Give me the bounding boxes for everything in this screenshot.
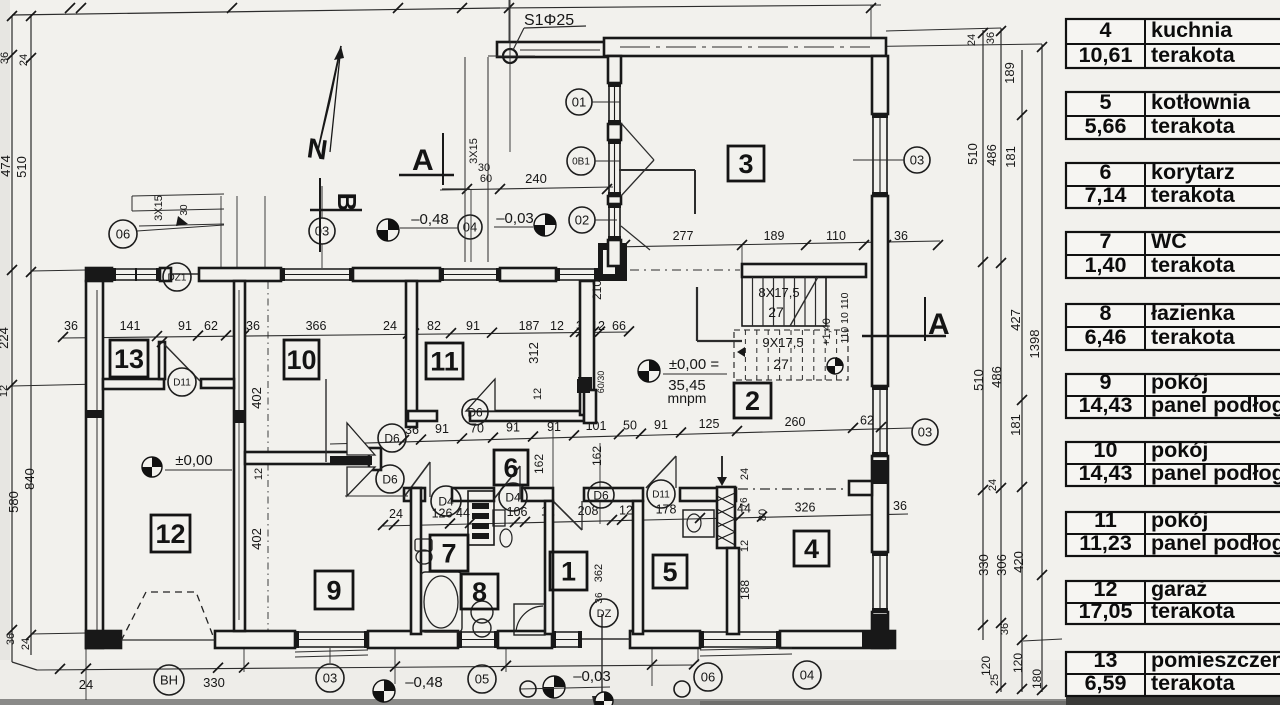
svg-text:D6: D6 <box>467 405 483 419</box>
porch west wall <box>608 56 621 83</box>
chimney wall room5/4 <box>717 487 735 548</box>
svg-text:5: 5 <box>662 557 677 587</box>
svg-text:24: 24 <box>20 638 32 650</box>
door D11 leaf room13 <box>164 344 200 381</box>
svg-text:+1,40: +1,40 <box>821 318 833 346</box>
svg-text:580: 580 <box>6 491 21 513</box>
benchmark -0.48 upper <box>377 219 399 241</box>
svg-text:60: 60 <box>480 173 492 185</box>
chimney flue room11 <box>577 379 590 393</box>
svg-text:402: 402 <box>249 387 264 409</box>
svg-text:6,46: 6,46 <box>1085 325 1127 349</box>
svg-text:12: 12 <box>550 319 564 333</box>
svg-text:±0,00: ±0,00 <box>175 452 212 469</box>
svg-text:terakota: terakota <box>1151 114 1236 138</box>
terrace edge lines <box>464 57 466 262</box>
svg-text:210: 210 <box>590 280 604 300</box>
svg-text:36: 36 <box>0 52 11 64</box>
stairs upper flight <box>742 277 826 326</box>
svg-text:840: 840 <box>22 468 37 490</box>
benchmark +-0.00 room12 <box>142 457 162 477</box>
label circle 03 <box>316 664 344 692</box>
leader 06 to steps <box>137 225 224 231</box>
svg-text:D11: D11 <box>652 490 670 501</box>
right exterior wall <box>872 56 888 114</box>
corridor north wall (room11 south) y411-421 <box>408 411 437 421</box>
svg-text:24: 24 <box>987 479 999 491</box>
benchmark -0.03 upper <box>534 214 556 236</box>
svg-text:03: 03 <box>910 153 924 168</box>
svg-text:łazienka: łazienka <box>1151 301 1236 325</box>
svg-text:terakota: terakota <box>1151 253 1236 277</box>
label circle D6 <box>378 424 406 452</box>
label circle 04 <box>458 215 482 239</box>
wc toilet <box>415 539 432 551</box>
corridor west double door D6 swings <box>347 423 375 455</box>
svg-text:02: 02 <box>575 213 589 228</box>
dim chain corridor <box>330 428 912 444</box>
bottom scan edge band <box>0 699 1280 705</box>
svg-text:–0,48: –0,48 <box>405 674 443 691</box>
room box 9 <box>315 571 353 609</box>
svg-text:125: 125 <box>699 417 720 431</box>
svg-text:03: 03 <box>323 671 337 686</box>
svg-text:A: A <box>412 144 434 177</box>
svg-text:10,61: 10,61 <box>1079 43 1133 67</box>
label circle 06 <box>109 220 137 248</box>
room1 west wall <box>545 501 553 634</box>
label circle D4 <box>499 483 527 511</box>
label circle 06 <box>694 663 722 691</box>
svg-text:9X17,5: 9X17,5 <box>762 335 803 350</box>
svg-text:14,43: 14,43 <box>1079 461 1133 485</box>
svg-text:12: 12 <box>155 519 185 549</box>
svg-text:224: 224 <box>0 327 11 349</box>
svg-text:181: 181 <box>1008 414 1023 436</box>
room box 7 <box>430 535 468 571</box>
room3 balcony door swings <box>621 123 654 160</box>
svg-text:91: 91 <box>435 422 449 436</box>
svg-text:306: 306 <box>994 554 1009 576</box>
svg-text:110 10 110: 110 10 110 <box>839 292 851 343</box>
leader lines for window labels <box>592 101 620 103</box>
svg-text:326: 326 <box>795 500 816 514</box>
label circle 03 <box>309 218 335 244</box>
svg-text:7,14: 7,14 <box>1085 183 1127 207</box>
wall rooms10/11 (vertical x406-417) <box>406 281 417 427</box>
svg-text:13: 13 <box>114 344 144 374</box>
svg-text:362: 362 <box>593 564 605 582</box>
svg-text:1,40: 1,40 <box>1085 253 1127 277</box>
svg-text:1398: 1398 <box>1027 330 1042 359</box>
svg-text:4: 4 <box>804 534 819 564</box>
svg-text:402: 402 <box>249 528 264 550</box>
svg-text:120: 120 <box>979 656 993 676</box>
shower corner <box>514 604 545 635</box>
dim chain lower rooms <box>383 514 908 526</box>
svg-text:91: 91 <box>466 319 480 333</box>
north arrow <box>318 46 341 150</box>
svg-text:mnpm: mnpm <box>668 390 707 406</box>
room box 6 <box>494 450 528 485</box>
stair hall top wall <box>742 264 866 277</box>
room box 4 <box>794 531 829 566</box>
room box 5 <box>653 555 687 588</box>
svg-text:1: 1 <box>561 557 576 587</box>
room box 10 <box>284 340 319 379</box>
label circle 04 <box>793 661 821 689</box>
svg-text:kuchnia: kuchnia <box>1151 18 1233 42</box>
svg-text:427: 427 <box>1008 309 1023 331</box>
label circle 01 <box>566 89 592 115</box>
svg-text:korytarz: korytarz <box>1151 160 1235 184</box>
svg-text:pokój: pokój <box>1151 508 1208 532</box>
svg-text:36: 36 <box>64 319 78 333</box>
svg-text:36: 36 <box>999 623 1011 635</box>
svg-text:60/30: 60/30 <box>596 371 606 394</box>
top wall left section <box>86 268 112 281</box>
svg-text:36: 36 <box>894 229 908 243</box>
section marker B <box>319 178 321 252</box>
svg-text:24: 24 <box>739 468 751 480</box>
svg-text:91: 91 <box>506 421 520 435</box>
svg-text:pokój: pokój <box>1151 370 1208 394</box>
svg-text:240: 240 <box>525 171 547 186</box>
svg-text:06: 06 <box>701 670 715 685</box>
svg-text:181: 181 <box>1003 146 1018 168</box>
svg-text:06: 06 <box>116 227 130 242</box>
top-left wall corner block x598-627 <box>598 243 627 281</box>
svg-text:126: 126 <box>432 506 453 520</box>
svg-text:–0,03: –0,03 <box>496 210 534 227</box>
label circle D11 <box>168 368 196 396</box>
svg-text:D4: D4 <box>505 490 521 504</box>
svg-text:36: 36 <box>594 592 605 604</box>
section marker A left <box>399 174 454 176</box>
small steps top-left <box>132 194 224 196</box>
washing machine <box>471 601 493 623</box>
svg-text:24: 24 <box>389 507 403 521</box>
svg-text:12: 12 <box>1094 577 1118 601</box>
extension lines to left dims <box>31 270 86 271</box>
room4 north T-wall piece <box>849 481 872 495</box>
svg-text:–0,48: –0,48 <box>411 211 449 228</box>
svg-text:486: 486 <box>989 366 1004 388</box>
wc/bath block west wall x411-421 <box>411 488 421 634</box>
svg-text:474: 474 <box>0 155 13 177</box>
svg-text:D6: D6 <box>382 472 398 486</box>
svg-text:±0,00 =: ±0,00 = <box>669 356 720 373</box>
room1 east wall <box>633 501 643 634</box>
top wall right section <box>604 38 886 56</box>
corridor south wall segments y488-501 <box>404 488 425 501</box>
svg-text:6: 6 <box>1100 160 1112 184</box>
svg-text:14,43: 14,43 <box>1079 393 1133 417</box>
svg-text:6,59: 6,59 <box>1085 671 1127 695</box>
svg-text:8: 8 <box>472 577 487 607</box>
svg-text:9: 9 <box>326 576 341 606</box>
svg-text:10: 10 <box>1094 438 1118 462</box>
svg-text:DZ: DZ <box>597 608 612 620</box>
svg-text:03: 03 <box>918 425 932 440</box>
label circle D4 <box>431 486 461 516</box>
room box 12 <box>151 515 190 552</box>
svg-text:312: 312 <box>526 342 541 364</box>
svg-text:11,23: 11,23 <box>1079 531 1132 555</box>
terrace steps bottom <box>295 650 368 652</box>
svg-text:120: 120 <box>1011 653 1025 673</box>
label circle D11 <box>647 480 675 508</box>
room box 8 <box>461 574 498 609</box>
garage door swing (dashed) <box>121 592 215 641</box>
svg-text:D6: D6 <box>384 431 400 445</box>
svg-text:62: 62 <box>860 414 874 428</box>
room11 door D6 swing <box>466 379 495 411</box>
svg-text:27: 27 <box>768 304 784 320</box>
svg-text:162: 162 <box>532 454 546 474</box>
svg-text:330: 330 <box>203 675 225 690</box>
svg-text:pomieszczenie g: pomieszczenie g <box>1151 648 1280 672</box>
top wall middle section <box>497 42 610 57</box>
svg-text:N: N <box>305 132 329 166</box>
room box 2 <box>734 383 771 418</box>
svg-text:pokój: pokój <box>1151 438 1208 462</box>
column S1 o25 <box>503 49 517 63</box>
svg-text:terakota: terakota <box>1151 43 1236 67</box>
label circle DZ1 <box>163 263 191 291</box>
svg-text:260: 260 <box>785 415 806 429</box>
label circle BH <box>154 665 184 695</box>
svg-text:106: 106 <box>507 505 528 519</box>
benchmark bottom DZ line <box>595 692 613 705</box>
svg-text:36: 36 <box>246 319 260 333</box>
junction block wall1 <box>233 410 246 423</box>
svg-text:366: 366 <box>306 319 327 333</box>
left+top dimension lines <box>11 16 13 662</box>
svg-text:486: 486 <box>984 144 999 166</box>
room13 south wall + D11 jamb <box>103 379 164 389</box>
left exterior wall <box>86 281 103 648</box>
dim chain rooms 13-10-11 <box>63 332 629 338</box>
svg-text:178: 178 <box>656 503 677 517</box>
stairs lower flight (dashed) <box>734 330 848 380</box>
label circle D6 <box>588 482 614 508</box>
door D11 room5 swing <box>646 456 676 488</box>
label circle 02 <box>569 207 595 233</box>
room box 1 <box>550 552 587 590</box>
svg-text:24: 24 <box>966 34 978 46</box>
label circle D6 <box>376 465 404 493</box>
svg-text:12: 12 <box>619 503 633 517</box>
svg-text:B: B <box>332 193 362 212</box>
legend table <box>1066 19 1280 68</box>
svg-text:66: 66 <box>612 319 626 333</box>
svg-text:12: 12 <box>739 540 751 552</box>
svg-text:110: 110 <box>826 229 846 243</box>
svg-text:3X15: 3X15 <box>153 195 165 221</box>
svg-text:82: 82 <box>427 319 441 333</box>
label circle DZ <box>590 599 618 627</box>
svg-text:terakota: terakota <box>1151 671 1236 695</box>
svg-text:01: 01 <box>572 95 586 110</box>
svg-text:62: 62 <box>204 319 218 333</box>
svg-text:3: 3 <box>738 149 753 179</box>
svg-text:330: 330 <box>976 554 991 576</box>
svg-text:7: 7 <box>1100 229 1112 253</box>
svg-text:7: 7 <box>441 539 456 569</box>
svg-text:189: 189 <box>1002 62 1017 84</box>
svg-text:5: 5 <box>1100 90 1112 114</box>
svg-text:36: 36 <box>893 499 907 513</box>
wall rooms13/12 - rooms10/9 (vertical x234-245) <box>234 281 245 631</box>
svg-text:188: 188 <box>738 580 752 600</box>
svg-text:91: 91 <box>178 319 192 333</box>
door D4 wc swing <box>404 462 430 497</box>
svg-text:91: 91 <box>654 418 668 432</box>
svg-text:76: 76 <box>739 497 750 509</box>
svg-text:13: 13 <box>1094 648 1118 672</box>
svg-text:10: 10 <box>286 345 316 375</box>
svg-text:50: 50 <box>623 418 637 432</box>
room11 east wall x580-594 <box>580 281 594 415</box>
svg-text:11: 11 <box>430 347 459 377</box>
svg-text:162: 162 <box>590 446 604 466</box>
svg-text:D11: D11 <box>173 378 191 389</box>
svg-text:510: 510 <box>965 143 980 165</box>
room10/9 divider wall y452-464 <box>245 452 372 464</box>
svg-text:420: 420 <box>1011 551 1026 573</box>
right dimension lines <box>982 30 984 640</box>
door D6 room1 swing <box>553 501 582 530</box>
svg-text:05: 05 <box>475 672 489 687</box>
svg-text:panel podłogow: panel podłogow <box>1151 393 1280 417</box>
svg-text:12: 12 <box>0 385 10 397</box>
wc shaft pipes <box>468 491 494 545</box>
porch dim line <box>440 187 613 190</box>
svg-text:80: 80 <box>757 509 769 521</box>
svg-text:terakota: terakota <box>1151 183 1236 207</box>
room box 11 <box>426 343 463 379</box>
room box 13 <box>110 340 148 377</box>
label circle 0B1 <box>567 147 595 175</box>
down arrow corridor <box>721 456 723 481</box>
label circle D6 <box>462 399 488 425</box>
stair hall west wall L <box>696 287 698 341</box>
svg-text:3X15: 3X15 <box>468 138 480 164</box>
svg-text:25: 25 <box>989 674 1001 686</box>
svg-text:36: 36 <box>985 32 997 44</box>
svg-text:189: 189 <box>764 229 785 243</box>
svg-text:4: 4 <box>1100 18 1112 42</box>
svg-text:36: 36 <box>5 633 17 645</box>
svg-text:03: 03 <box>315 224 329 239</box>
shaft wall piece x584-596 y390-423 <box>584 390 596 423</box>
extension lines <box>220 196 222 268</box>
door D4 bath swing <box>494 466 520 499</box>
svg-text:27: 27 <box>773 356 789 372</box>
svg-text:11: 11 <box>1094 508 1117 532</box>
svg-text:0B1: 0B1 <box>572 157 590 168</box>
bathtub <box>421 572 462 632</box>
dim chain room3 <box>612 241 940 247</box>
bottom exterior wall <box>86 631 121 648</box>
svg-text:panel podłogow: panel podłogow <box>1151 461 1280 485</box>
label circle 03 <box>912 419 938 445</box>
washbasin near bath <box>493 510 505 526</box>
label circle 05 <box>468 665 496 693</box>
svg-text:WC: WC <box>1151 229 1187 253</box>
svg-text:04: 04 <box>800 668 814 683</box>
svg-text:8X17,5: 8X17,5 <box>758 285 799 300</box>
svg-text:DZ1: DZ1 <box>168 273 187 284</box>
bottom dim line <box>37 665 694 670</box>
svg-text:510: 510 <box>971 369 986 391</box>
stair elevation marker <box>827 358 843 374</box>
svg-text:24: 24 <box>383 319 397 333</box>
svg-text:kotłownia: kotłownia <box>1151 90 1251 114</box>
svg-text:180: 180 <box>1030 669 1044 689</box>
svg-text:D6: D6 <box>593 488 609 502</box>
svg-text:–0,03: –0,03 <box>573 668 611 685</box>
svg-text:17,05: 17,05 <box>1079 599 1133 623</box>
svg-text:garaż: garaż <box>1151 577 1207 601</box>
svg-text:5,66: 5,66 <box>1085 114 1127 138</box>
svg-text:terakota: terakota <box>1151 599 1236 623</box>
svg-text:8: 8 <box>1100 301 1112 325</box>
svg-text:277: 277 <box>673 229 694 243</box>
boiler room5 <box>683 510 714 537</box>
svg-text:D4: D4 <box>438 494 454 508</box>
svg-text:panel podłogow: panel podłogow <box>1151 531 1280 555</box>
svg-text:187: 187 <box>519 319 540 333</box>
svg-text:9: 9 <box>1100 370 1112 394</box>
section marker A right <box>862 335 946 337</box>
svg-text:6: 6 <box>503 453 518 483</box>
benchmark -0.48 bottom <box>373 680 395 702</box>
svg-text:141: 141 <box>120 319 141 333</box>
svg-text:BH: BH <box>160 673 178 688</box>
label circle 03 <box>904 147 930 173</box>
benchmark +-0.00 stairs <box>638 360 660 382</box>
svg-text:12: 12 <box>253 468 265 480</box>
room10 closet line <box>325 379 327 462</box>
benchmark -0.03 bottom <box>543 676 565 698</box>
svg-text:12: 12 <box>532 388 544 400</box>
room box 3 <box>728 146 764 181</box>
svg-text:510: 510 <box>14 156 29 178</box>
svg-text:terakota: terakota <box>1151 325 1236 349</box>
room3 interior L-wall <box>694 170 696 214</box>
svg-text:A: A <box>928 308 950 341</box>
svg-text:2: 2 <box>745 386 760 416</box>
svg-text:24: 24 <box>18 54 30 66</box>
